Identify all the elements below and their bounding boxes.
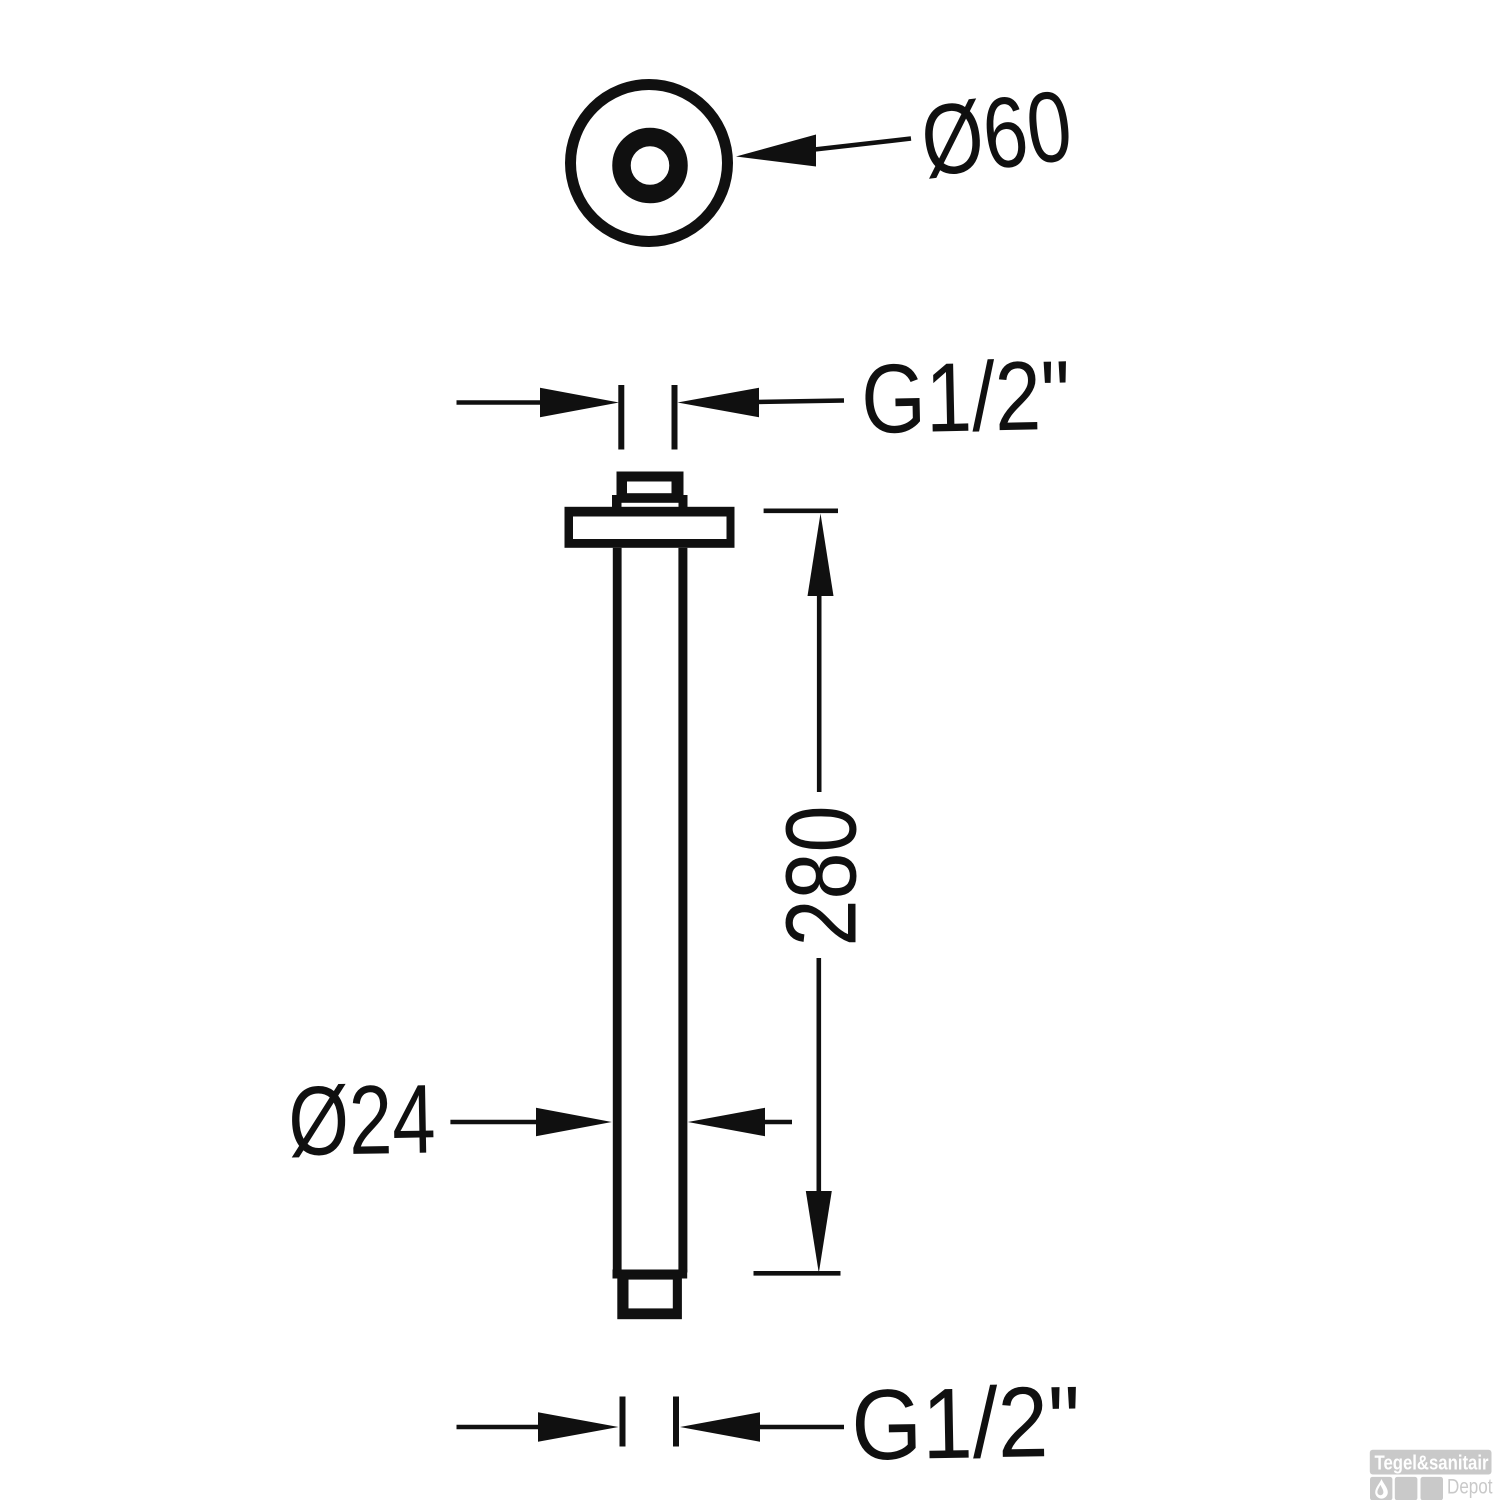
shower arm: tube left wall [613, 548, 622, 1273]
280 dimension: lower line segment [816, 958, 821, 1200]
watermark: square 3 [1421, 1477, 1444, 1500]
top G1/2 dimension: right tail line [755, 401, 844, 403]
top view: rosette outer circle [571, 85, 728, 242]
D24 dimension: right tail line [760, 1120, 792, 1125]
D24 dimension: right arrowhead [688, 1108, 765, 1136]
280 dimension: top reference tick [764, 508, 838, 513]
bottom G1/2 dimension: left extension tick [620, 1397, 626, 1447]
280 dimension: down arrowhead [806, 1191, 832, 1273]
svg-text:G1/2": G1/2" [860, 340, 1071, 454]
watermark: banner [1370, 1450, 1492, 1475]
top G1/2 dimension: left extension tick [618, 385, 624, 450]
watermark: water drop icon [1375, 1479, 1388, 1499]
svg-text:Ø60: Ø60 [915, 69, 1077, 198]
watermark: square 1 [1370, 1477, 1392, 1500]
bottom G1/2 dimension: right tail line [756, 1425, 844, 1430]
bottom G1/2 dimension: left tail line [457, 1425, 546, 1430]
bottom G1/2 dimension: right extension tick [673, 1397, 679, 1447]
280 dimension: upper line segment [817, 590, 822, 792]
280 dimension: bottom reference tick [754, 1271, 841, 1276]
top G1/2 dimension: left arrowhead [540, 388, 619, 417]
shower arm: bottom threaded end cap [617, 1279, 682, 1320]
top G1/2 dimension: right extension tick [672, 385, 678, 450]
280 dimension: up arrowhead [808, 514, 834, 597]
top G1/2 dimension: left tail line [457, 400, 546, 405]
D24 dimension: left arrowhead [536, 1108, 612, 1136]
svg-text:Depot: Depot [1447, 1475, 1493, 1499]
svg-text:G1/2": G1/2" [850, 1366, 1081, 1482]
shower arm: top threaded nipple [617, 472, 684, 496]
leader line for D60 [810, 139, 911, 151]
shower arm: collar step [612, 495, 688, 508]
bottom G1/2 dimension: left arrowhead [538, 1412, 619, 1441]
shower arm: bottom shoulder band [613, 1270, 688, 1279]
bottom G1/2 dimension: right arrowhead [680, 1412, 760, 1441]
top G1/2 dimension: right arrowhead [678, 388, 760, 417]
D24 dimension: left tail line [450, 1120, 545, 1125]
svg-text:280: 280 [766, 806, 878, 947]
watermark: square 2 [1395, 1477, 1418, 1500]
shower arm: ceiling flange plate [565, 507, 735, 548]
leader arrowhead for D60 [736, 135, 816, 167]
watermark: water drop inner [1377, 1485, 1383, 1495]
shower arm: tube right wall [678, 548, 687, 1273]
svg-text:Tegel&sanitair: Tegel&sanitair [1375, 1452, 1489, 1475]
svg-text:Ø24: Ø24 [287, 1063, 436, 1176]
top view: inner pipe ring [622, 137, 679, 194]
